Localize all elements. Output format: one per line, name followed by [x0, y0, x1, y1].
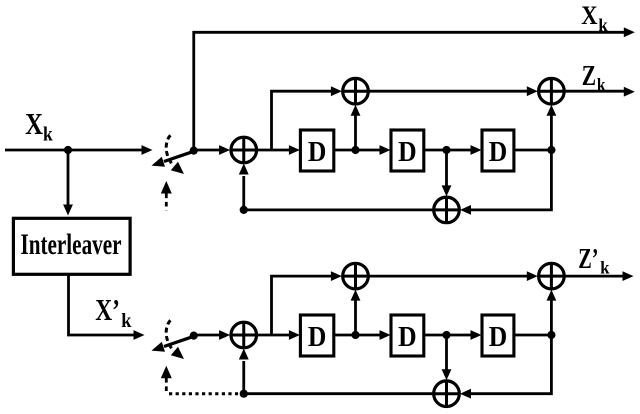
- wire node up to X3: [547, 105, 557, 150]
- wire switch to X5: [194, 330, 230, 340]
- svg-text:D: D: [489, 136, 508, 168]
- node switch output lower: [190, 332, 198, 340]
- label Z'k: [578, 244, 609, 278]
- switch SW2 select arrow (dashed): [161, 366, 172, 394]
- XOR X3 (upper parity adder 2): [539, 78, 565, 104]
- delay D4 (lower): [300, 315, 333, 356]
- svg-text:Z: Z: [582, 60, 596, 92]
- wire X5 to D4: [257, 330, 300, 340]
- svg-text:D: D: [489, 321, 508, 353]
- XOR X4 (upper feedback adder): [434, 197, 460, 223]
- node after D2 (upper): [442, 146, 450, 154]
- wire D5 to D6: [424, 330, 482, 340]
- wire X6 to X7: [368, 271, 538, 281]
- wire parity tap lower: [272, 271, 342, 335]
- delay D1 (upper): [300, 130, 333, 171]
- wire feedback up to X5: [239, 349, 249, 394]
- XOR X8 (lower feedback adder): [434, 381, 460, 407]
- wire input Xk: [5, 145, 153, 155]
- interleaver box: [13, 218, 130, 274]
- wire node down to X4: [442, 150, 452, 196]
- wire feedback up to X1: [239, 164, 249, 210]
- XOR X6 (lower parity adder 1): [343, 263, 369, 289]
- switch SW2 (lower): [152, 320, 194, 359]
- svg-text:k: k: [597, 75, 606, 95]
- wire D2 to D3: [424, 145, 482, 155]
- wire Zk out: [564, 87, 635, 97]
- label X'k: [95, 293, 132, 332]
- svg-text:X: X: [25, 107, 43, 141]
- wire feedback right lower: [460, 335, 551, 399]
- wire interleaver out: [69, 276, 145, 340]
- wire node down to X8: [442, 335, 452, 380]
- node after D4 (lower): [351, 331, 359, 339]
- delay D6 (lower): [482, 315, 514, 356]
- XOR X7 (lower parity adder 2): [539, 263, 565, 289]
- switch SW1 (upper): [152, 135, 194, 174]
- svg-text:D: D: [308, 321, 327, 353]
- svg-text:k: k: [600, 257, 609, 277]
- XOR X1 (upper input adder): [231, 137, 257, 163]
- svg-text:Interleaver: Interleaver: [21, 228, 122, 261]
- node after D5 (lower): [442, 331, 450, 339]
- svg-text:X’: X’: [95, 293, 120, 327]
- node after D1 (upper): [351, 146, 359, 154]
- wire Z'k out: [564, 271, 633, 281]
- svg-text:k: k: [43, 123, 53, 145]
- wire X2 to X3: [368, 86, 538, 96]
- label Xk input: [25, 107, 53, 145]
- wire D6 to node: [514, 334, 552, 337]
- wire parity tap upper: [272, 86, 342, 150]
- svg-text:Z’: Z’: [578, 244, 598, 275]
- svg-text:D: D: [308, 136, 327, 168]
- wire feedback left upper: [244, 208, 434, 211]
- svg-text:D: D: [398, 136, 417, 168]
- delay D2 (upper): [391, 130, 424, 171]
- wire node up to X6: [351, 290, 361, 335]
- wire X1 to D1: [257, 145, 300, 155]
- XOR X5 (lower input adder): [231, 322, 257, 348]
- wire switch to X1: [194, 145, 230, 155]
- node after D3 (upper): [547, 146, 555, 154]
- svg-text:k: k: [598, 15, 608, 35]
- wire node up to X7: [547, 290, 557, 335]
- switch SW1 select arrow (dashed, floating): [161, 181, 172, 211]
- svg-text:k: k: [121, 310, 132, 332]
- wire systematic Xk out: [194, 27, 635, 150]
- wire node up to X2: [351, 105, 361, 150]
- node input junction: [64, 146, 72, 154]
- svg-text:X: X: [581, 0, 597, 30]
- wire dotted link SW2 to feedback: [169, 392, 238, 395]
- node feedback upper: [240, 206, 248, 214]
- node switch output: [190, 147, 198, 155]
- label Xk output: [581, 0, 608, 35]
- delay D3 (upper): [482, 130, 514, 171]
- wire feedback left lower: [244, 392, 434, 395]
- label Zk: [582, 60, 606, 95]
- node feedback lower: [240, 390, 248, 398]
- node after D6 (lower): [547, 331, 555, 339]
- wire feedback right upper: [460, 150, 551, 215]
- wire D4 to D5: [334, 330, 391, 340]
- svg-text:D: D: [398, 321, 417, 353]
- delay D5 (lower): [391, 315, 424, 356]
- wire D3 to node: [514, 149, 552, 152]
- XOR X2 (upper parity adder 1): [343, 78, 369, 104]
- wire to interleaver: [63, 150, 73, 216]
- wire D1 to D2: [334, 145, 391, 155]
